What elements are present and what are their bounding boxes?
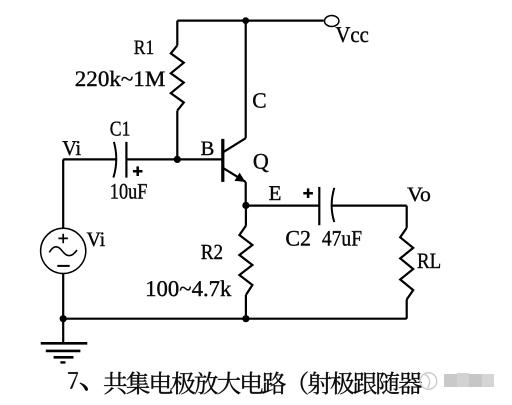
wire collector vertical (245, 21, 247, 139)
svg-text:Vo: Vo (407, 184, 431, 206)
wire input vertical (62, 159, 64, 228)
wire emitter to E node (245, 182, 247, 206)
svg-text:C1: C1 (110, 116, 131, 140)
wire bottom rail (63, 318, 407, 320)
label C1 plus polarity (133, 166, 143, 176)
resistor RL (400, 228, 413, 300)
node junction E (242, 202, 249, 209)
AC source plus sign (58, 234, 68, 244)
svg-text:10uF: 10uF (110, 178, 148, 203)
svg-text:C: C (252, 89, 266, 113)
svg-text:47uF: 47uF (322, 226, 362, 251)
power terminal Vcc circle (325, 16, 339, 27)
wire R2 vertical (245, 205, 247, 318)
transistor Q1 collector stroke (223, 138, 246, 152)
svg-text:C2: C2 (285, 226, 311, 251)
svg-text:E: E (269, 181, 282, 205)
transistor Q1 emitter stroke (223, 168, 246, 182)
svg-text:220k~1M: 220k~1M (75, 66, 166, 91)
svg-text:Vi: Vi (87, 229, 106, 251)
wire source to ground (62, 273, 64, 343)
resistor R2 (239, 226, 252, 295)
wire base node to transistor (63, 158, 222, 160)
node junction collector top (242, 17, 249, 24)
wire RL branch vertical (406, 206, 408, 319)
svg-text:B: B (201, 138, 215, 160)
capacitor C2 (319, 187, 334, 225)
svg-text:Vi: Vi (62, 136, 81, 160)
label C2 plus polarity (303, 188, 313, 198)
transistor Q1 base bar (221, 139, 224, 182)
svg-text:100~4.7k: 100~4.7k (145, 276, 232, 301)
node junction B (174, 156, 181, 163)
capacitor C1 (113, 142, 126, 178)
caption title text (68, 371, 422, 394)
wire C2 to RL branch (331, 205, 407, 207)
ground symbol (41, 343, 88, 362)
svg-text:Vcc: Vcc (335, 22, 368, 47)
svg-text:Q: Q (253, 149, 269, 174)
node junction R2 bottom (242, 315, 249, 322)
resistor R1 (176, 21, 178, 46)
node junction ground (60, 315, 67, 322)
AC source minus sign (57, 265, 69, 267)
AC source Vi circle (41, 228, 86, 273)
AC source sine wave (49, 247, 77, 256)
wire E node to C2 (246, 205, 319, 207)
svg-text:R1: R1 (134, 37, 154, 59)
svg-text:R2: R2 (201, 240, 223, 264)
watermark swirl (420, 373, 437, 390)
svg-text:RL: RL (417, 248, 441, 273)
transistor Q1 emitter arrow (235, 173, 246, 182)
watermark mosaic (444, 373, 494, 387)
wire top rail (177, 20, 323, 22)
